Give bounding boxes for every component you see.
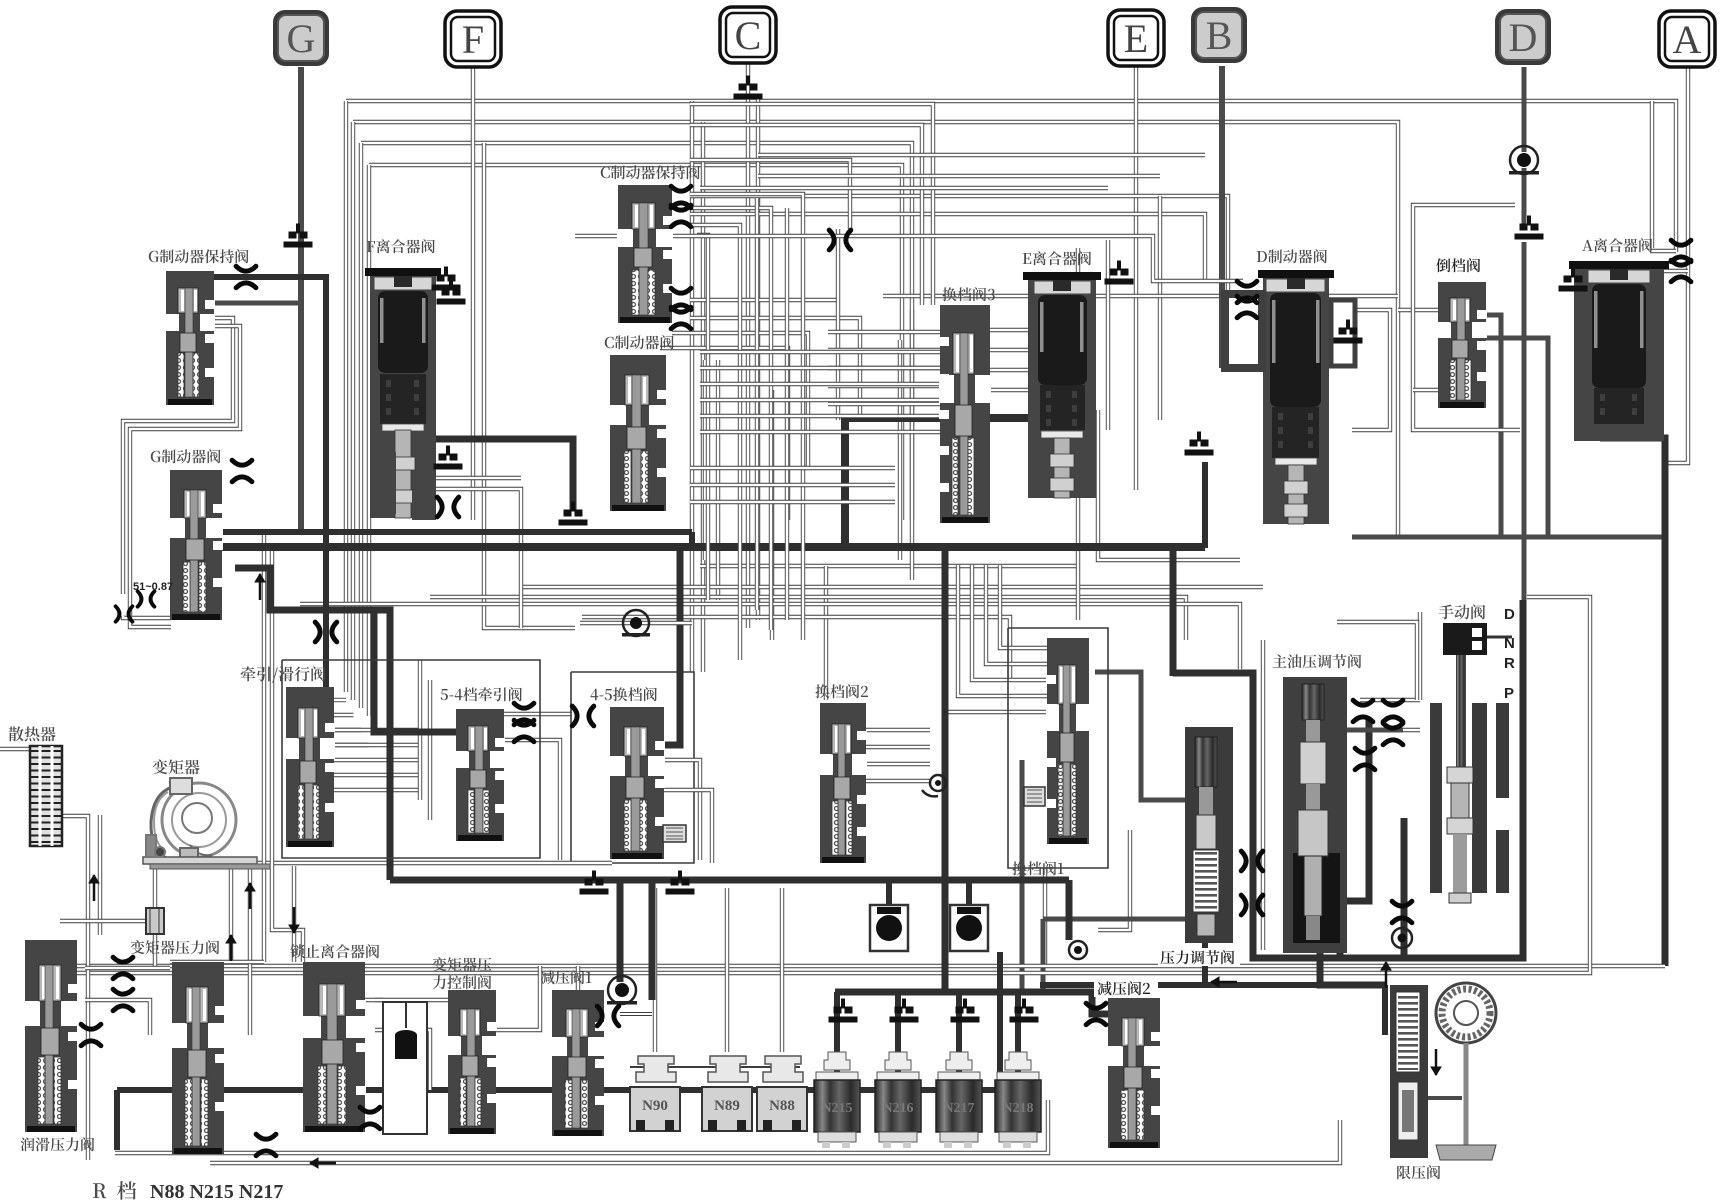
- valve reverse: [1438, 282, 1486, 408]
- wire mesh v2: [716, 360, 720, 600]
- wire bus2 d2: [649, 880, 656, 1000]
- label G brake: [151, 451, 161, 463]
- wire bus2 d1: [617, 880, 624, 982]
- solenoid dark 3: [936, 1052, 982, 1148]
- wire mid v692: [690, 101, 694, 672]
- wire tr thick: [235, 568, 390, 880]
- label tc pressure control: [432, 957, 446, 971]
- valve manual: [1443, 623, 1487, 655]
- arrow up 2: [245, 883, 255, 909]
- restrictor bowtie small 2: [116, 606, 133, 621]
- arrow left 2: [1211, 977, 1237, 987]
- wire e feeds: [990, 328, 1028, 332]
- svg-text:R: R: [1504, 655, 1515, 672]
- wire G hold top: [213, 277, 326, 687]
- valve lockup: [303, 962, 365, 1132]
- wire sv1 low: [1043, 868, 1047, 966]
- valve F body ext: [370, 452, 396, 514]
- exhaust symbol 7: [432, 267, 460, 290]
- valve 4-5 shift: [610, 707, 664, 859]
- wire tcc ball: [383, 1048, 425, 1052]
- wire B stem: [1219, 66, 1225, 368]
- arrow left 1: [310, 1158, 336, 1168]
- svg-text:P: P: [1504, 685, 1514, 702]
- wire rev left stub: [1398, 308, 1438, 312]
- pump gear circle: [1436, 983, 1496, 1043]
- wire stair v2: [690, 125, 922, 305]
- valve main pressure reg: [1283, 677, 1347, 953]
- exhaust symbol 11: [890, 999, 918, 1022]
- wire D stem c: [1522, 242, 1527, 612]
- svg-text:N: N: [1504, 635, 1515, 652]
- valve C brake holding: [618, 185, 672, 323]
- wire mesh v1: [703, 360, 707, 560]
- svg-text:A: A: [1673, 17, 1702, 62]
- restrictor bowtie 16: [1353, 700, 1373, 722]
- arrow up 5: [1381, 962, 1391, 988]
- wire d right loop: [1333, 310, 1390, 430]
- ball on D stem: [1509, 146, 1539, 175]
- wire tr comb: [331, 728, 420, 732]
- valve tc pressure: [172, 962, 224, 1154]
- wire mid h4: [582, 617, 1010, 680]
- restrictor bowtie 13: [1237, 296, 1257, 318]
- wire lock feeds: [375, 998, 448, 1002]
- wire mid h1: [520, 585, 1263, 589]
- wire bus2 d4: [1066, 880, 1073, 940]
- wire 45 thick: [648, 548, 680, 745]
- valve 5-4 traction: [456, 709, 504, 841]
- wire low lock: [365, 998, 383, 1002]
- wire a stubs: [1650, 249, 1676, 253]
- wire stair v4: [690, 208, 771, 630]
- wire frame loop 3: [361, 143, 912, 520]
- wire G stem: [298, 67, 304, 534]
- wire E stem: [1134, 65, 1138, 490]
- valve E clutch: [1028, 278, 1096, 498]
- ball sv2: [930, 775, 946, 791]
- wire c5: [672, 333, 808, 470]
- wire mesh comb h: [700, 350, 940, 354]
- exhaust symbol 4: [1515, 216, 1543, 239]
- wire mesh v3: [770, 390, 774, 640]
- wire mesh v4: [898, 340, 902, 560]
- wire stair v5: [690, 225, 740, 660]
- connector C: [720, 7, 776, 63]
- wire rail bottom2: [115, 1100, 1048, 1153]
- wire frame loop 1: [346, 101, 1676, 252]
- wire bus2 d3: [886, 880, 892, 905]
- wire F stem: [471, 67, 475, 520]
- wire rail bottom1b: [72, 597, 1590, 973]
- wire limit side: [1428, 1096, 1462, 1100]
- radiator: [30, 746, 62, 846]
- restrictor bowtie 22: [113, 957, 133, 979]
- wire ball mid stub: [580, 621, 692, 625]
- valve G brake holding: [166, 271, 214, 405]
- wire mesh top h: [758, 153, 1205, 157]
- svg-text:F: F: [462, 17, 484, 62]
- svg-text:N88: N88: [769, 1098, 795, 1114]
- exhaust symbol 8: [437, 281, 465, 304]
- wire stair v7: [755, 198, 759, 610]
- restrictor bowtie 17: [1383, 700, 1403, 722]
- wire c7: [836, 229, 840, 420]
- valve traction-coast: [286, 687, 334, 847]
- restrictor bowtie 18: [1383, 723, 1403, 745]
- wire 45 box: [571, 672, 694, 863]
- connector B: [1191, 7, 1247, 63]
- label shift 3: [942, 287, 956, 301]
- wire c3: [690, 298, 838, 302]
- restrictor bowtie 14: [1671, 240, 1691, 262]
- accumulator 1: [870, 905, 908, 951]
- wire sol bus top: [620, 1012, 652, 1016]
- label 5-4 traction: [441, 689, 448, 700]
- ball manual bottom: [1392, 928, 1412, 948]
- valve C brake: [610, 355, 666, 511]
- wire C stem2: [756, 97, 760, 620]
- svg-text:C: C: [735, 13, 762, 58]
- restrictor bowtie 28: [1086, 1003, 1106, 1025]
- wire C stem: [746, 60, 750, 628]
- wire rad down2: [98, 815, 102, 935]
- wire stair v3: [690, 194, 803, 640]
- valve shift 3: [940, 305, 990, 523]
- wire mp loop: [1261, 640, 1265, 950]
- wire tc v2: [248, 866, 252, 1035]
- wire D stem b: [1522, 168, 1527, 229]
- label torque converter: [152, 759, 167, 774]
- restrictor bowtie 1: [236, 266, 256, 288]
- wire preg feeds: [1095, 672, 1187, 800]
- solenoid N88: [757, 1056, 807, 1131]
- wire bottom thick bus: [117, 1087, 1000, 1093]
- ball reduction1: [607, 976, 637, 1005]
- wire radiator left: [0, 747, 31, 751]
- wire long 236: [575, 236, 1243, 281]
- exhaust symbol 13: [1010, 999, 1038, 1022]
- restrictor bowtie 20: [1241, 851, 1263, 871]
- wire ball branch: [1413, 205, 1520, 430]
- restrictor bowtie 23: [113, 989, 133, 1011]
- wire mp bottom: [1320, 950, 1385, 985]
- wire mp r: [1418, 612, 1422, 700]
- wire red1 top: [576, 966, 580, 990]
- wire rev r2: [1485, 338, 1548, 537]
- label E clutch: [1023, 253, 1032, 264]
- valve lube pressure: [25, 940, 77, 1132]
- svg-text:N88 N215 N217: N88 N215 N217: [150, 1181, 283, 1201]
- restrictor bowtie 8: [829, 230, 851, 250]
- wire mp h: [1360, 698, 1420, 702]
- wire main bus: [218, 529, 692, 535]
- wire bus up: [1202, 462, 1208, 548]
- wire stair v6: [697, 235, 708, 600]
- restrictor bowtie 10: [514, 720, 534, 742]
- label manual valve: [1438, 605, 1453, 620]
- arrow down 1: [289, 907, 299, 933]
- arrow pump down: [1431, 1049, 1441, 1075]
- exhaust symbol 15: [666, 871, 694, 894]
- exhaust symbol 5: [1334, 320, 1362, 343]
- wire mp right: [1347, 728, 1403, 733]
- restrictor bowtie 4: [671, 186, 691, 208]
- svg-text:N218: N218: [1002, 1101, 1033, 1116]
- wire sv1 box: [1008, 628, 1108, 868]
- wire 54 right1: [502, 712, 572, 716]
- exhaust symbol 17: [559, 502, 587, 525]
- wire D stem a: [1522, 67, 1527, 152]
- wire mesh v5: [910, 310, 914, 580]
- valve A clutch: [1574, 267, 1664, 441]
- solenoid N90: [630, 1056, 680, 1131]
- label traction-coast: [241, 666, 256, 681]
- restrictor bowtie small 1: [138, 591, 155, 606]
- svg-text:D: D: [1509, 15, 1538, 60]
- wire sol drops: [834, 992, 840, 1075]
- wire h566: [700, 564, 1078, 568]
- exhaust symbol 14: [580, 871, 608, 894]
- wire 45 spring h: [662, 790, 712, 863]
- wire mid h2: [430, 597, 1186, 640]
- wire tr v: [418, 660, 422, 800]
- wire a bot: [1600, 438, 1665, 966]
- connector D: [1495, 9, 1551, 65]
- valve shift 1: [1047, 638, 1089, 844]
- exhaust symbol 3: [1105, 261, 1133, 284]
- restrictor bowtie 21: [1241, 895, 1263, 915]
- wire h537: [1352, 535, 1665, 540]
- wire 45 h: [662, 760, 700, 860]
- wire v945: [942, 547, 949, 992]
- restrictor bowtie 30: [315, 622, 337, 642]
- connector A: [1659, 11, 1715, 67]
- wire bus2: [390, 877, 1069, 884]
- wire d low: [1098, 830, 1130, 930]
- wire v1173: [1170, 548, 1177, 676]
- connector F: [445, 11, 501, 67]
- wire c4: [690, 318, 860, 420]
- restrictor bowtie 27: [597, 1006, 619, 1026]
- label shift 1: [1012, 861, 1026, 875]
- wire low h1: [170, 960, 264, 964]
- exhaust symbol 12: [951, 999, 979, 1022]
- label main pressure reg: [1273, 654, 1287, 667]
- restrictor bowtie 3: [437, 497, 459, 517]
- restrictor bowtie 25: [360, 1107, 380, 1129]
- restrictor bowtie 12: [1237, 281, 1257, 303]
- wire tcc right: [496, 966, 540, 1030]
- label lube pressure: [20, 1137, 34, 1151]
- restrictor bowtie 19: [1355, 748, 1375, 770]
- exhaust symbol 9: [1559, 268, 1587, 291]
- restrictor bowtie 26: [256, 1134, 276, 1156]
- label limit: [1397, 1166, 1410, 1180]
- wire rad down: [60, 816, 88, 1160]
- label pressure reg: [1158, 948, 1240, 966]
- svg-text:G: G: [287, 16, 316, 61]
- exhaust symbol 6: [1185, 432, 1213, 455]
- wire tc v1: [229, 866, 233, 960]
- wire mreg bus: [1040, 982, 1320, 988]
- wire preg v: [1202, 930, 1208, 985]
- valve tcc body: [448, 990, 496, 1134]
- svg-text:D: D: [1504, 606, 1515, 623]
- wire c1: [690, 196, 1228, 290]
- wire g left loop: [123, 318, 233, 594]
- wire tr group box: [282, 660, 540, 858]
- solenoid dark 1: [814, 1052, 860, 1148]
- accumulator 2: [950, 905, 988, 951]
- wire tc v3: [292, 866, 296, 962]
- restrictor bowtie 7: [671, 307, 691, 329]
- arrow up 1: [89, 875, 99, 901]
- wire frame loop 2: [353, 122, 1398, 536]
- label 4-5 shift: [590, 689, 598, 700]
- wire tc base: [163, 861, 612, 865]
- restrictor bowtie 15: [1671, 260, 1691, 282]
- svg-text:N217: N217: [943, 1101, 974, 1116]
- svg-text:N90: N90: [642, 1098, 668, 1114]
- wire tr feeds: [332, 698, 346, 702]
- wire stair v1: [690, 104, 933, 305]
- label reduction 1: [540, 970, 554, 984]
- label tc pressure: [130, 940, 144, 954]
- ball bus2: [1069, 941, 1087, 959]
- wire frame loop 4: [369, 165, 902, 520]
- damper box sv1: [1024, 787, 1045, 806]
- wire manual frame loop: [1340, 600, 1523, 958]
- svg-text:51~0.87: 51~0.87: [133, 581, 173, 593]
- exhaust symbol 16: [434, 446, 462, 469]
- wire limit link: [1382, 985, 1388, 1035]
- wire sol stems: [653, 888, 657, 1052]
- wire rail bottom1: [63, 964, 1665, 968]
- wire mesh comb h2: [690, 466, 895, 470]
- restrictor bowtie 5: [671, 205, 691, 227]
- wire c2: [690, 214, 1205, 282]
- label reduction 2: [1094, 980, 1158, 997]
- wire lube r: [85, 966, 170, 970]
- wire h296: [883, 294, 1398, 298]
- wire g left frame: [130, 326, 240, 627]
- label R gear: [93, 1183, 107, 1198]
- valve pressure reg: [1185, 727, 1233, 943]
- exhaust symbol 1: [284, 224, 312, 247]
- restrictor bowtie 2: [232, 460, 252, 482]
- svg-text:E: E: [1124, 16, 1148, 61]
- label radiator: [8, 726, 23, 741]
- connector G: [273, 10, 329, 66]
- valve reduction 2: [1108, 998, 1160, 1148]
- ball mid: [622, 610, 650, 637]
- wire tc small: [60, 919, 146, 923]
- wire mid h3: [300, 604, 1240, 669]
- wire mid v703: [701, 122, 705, 672]
- restrictor bowtie 9: [514, 703, 534, 725]
- wire A stem: [1668, 63, 1688, 463]
- small thermo: [146, 908, 164, 934]
- svg-text:N216: N216: [882, 1101, 913, 1116]
- wire tr thick2: [374, 612, 456, 732]
- svg-text:N215: N215: [821, 1101, 852, 1116]
- label C brake holding: [601, 167, 610, 179]
- wire sv2 right: [864, 728, 930, 732]
- wire sv1 l: [1000, 565, 1047, 648]
- connector E: [1108, 10, 1164, 66]
- exhaust symbol 2: [734, 76, 762, 99]
- wire ed v1: [1158, 196, 1162, 420]
- wire sv3 comb: [828, 330, 940, 334]
- svg-text:N89: N89: [714, 1098, 740, 1114]
- wire ed v3: [1076, 248, 1080, 620]
- restrictor bowtie 6: [671, 288, 691, 310]
- restrictor bowtie 29: [1392, 901, 1412, 923]
- wire A feed2: [1650, 101, 1654, 248]
- wire manual top feed: [1337, 622, 1417, 700]
- wire ed v2: [1106, 240, 1110, 430]
- damper box 45: [663, 825, 686, 842]
- wire loop C guard: [484, 143, 575, 628]
- valve reduction 1: [552, 990, 604, 1136]
- arrow up 4: [255, 574, 265, 600]
- wire rev r1: [1485, 315, 1501, 537]
- svg-text:B: B: [1206, 13, 1233, 58]
- valve limit: [1390, 985, 1428, 1158]
- restrictor bowtie 11: [572, 706, 594, 726]
- wire sol link: [630, 1066, 800, 1068]
- wire mreg loop: [1173, 673, 1369, 958]
- label C brake: [605, 337, 614, 349]
- valve F clutch: [370, 274, 436, 518]
- wire sol bus: [835, 992, 1108, 1014]
- exhaust symbol 10: [829, 999, 857, 1022]
- valve shift 2: [820, 703, 866, 863]
- wire lock left: [262, 533, 266, 962]
- wire c8: [690, 160, 850, 229]
- wire c6: [660, 348, 788, 520]
- wire g right: [213, 301, 301, 306]
- valve D brake: [1263, 276, 1329, 524]
- label A clutch: [1582, 240, 1593, 251]
- label D brake: [1257, 251, 1267, 262]
- wire d left: [1222, 308, 1240, 312]
- wire rail bottom3: [210, 1120, 1340, 1163]
- label G brake holding: [149, 251, 159, 263]
- label shift 2: [815, 684, 829, 698]
- wire 54 right2: [502, 740, 560, 860]
- label F clutch: [367, 241, 375, 252]
- arrow up 3: [226, 935, 236, 961]
- valve tc pressure control: [383, 1002, 427, 1134]
- label reverse: [1434, 256, 1492, 274]
- torque converter: [143, 778, 270, 869]
- solenoid dark 4: [995, 1052, 1041, 1148]
- valve D right box: [1331, 300, 1355, 366]
- wire bus join: [689, 532, 695, 547]
- wire E thick: [845, 414, 1043, 422]
- wire f low: [434, 476, 521, 480]
- restrictor bowtie 24: [81, 1024, 101, 1046]
- solenoid dark 2: [875, 1052, 921, 1148]
- wire d feed: [1098, 410, 1240, 560]
- solenoid N89: [702, 1056, 752, 1131]
- wire f thick out: [434, 439, 573, 510]
- valve D left arm: [1221, 290, 1266, 372]
- label lockup: [290, 944, 304, 958]
- valve G brake: [170, 470, 222, 620]
